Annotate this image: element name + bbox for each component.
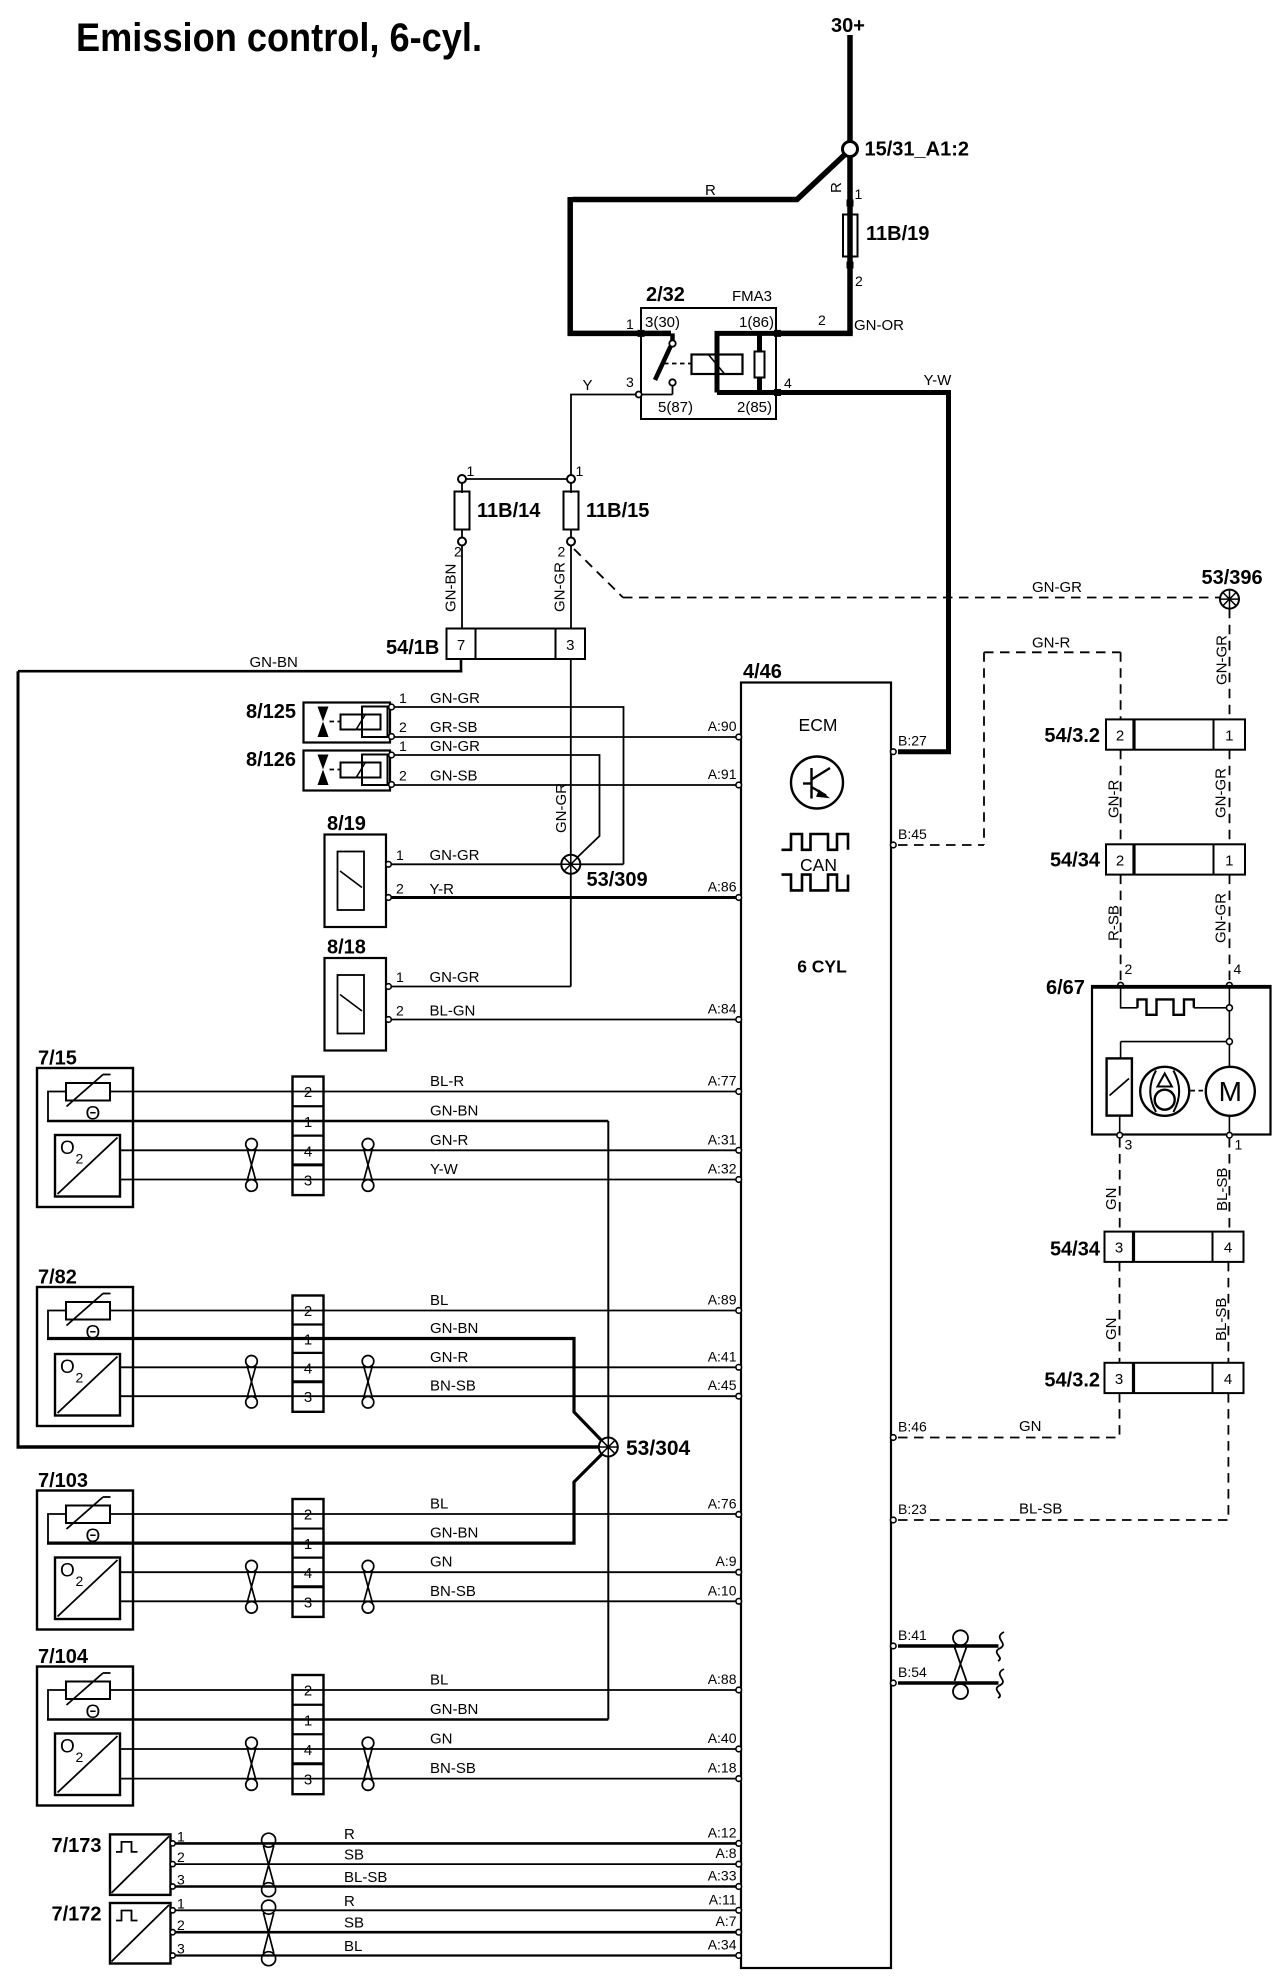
wire BN-SB 7/103 pin 3 to ECM [120,1600,736,1602]
wire Y-W 7/15 pin 3 to ECM [120,1179,736,1181]
dashed wire GN-GR splice to 54/3.2 pin 1 [1229,609,1231,720]
oxygen sensor 7/82 heater element [66,1302,110,1320]
svg-text:GN-R: GN-R [1106,780,1123,818]
svg-text:1: 1 [177,1895,185,1911]
wire into fuse 11B/14 [461,483,463,493]
solenoid valve 8/126 box [304,751,391,791]
svg-text:1: 1 [1235,1137,1243,1153]
svg-text:3: 3 [304,1173,312,1190]
fuse 11B/14 [455,492,470,530]
ECM pin A:45 [736,1393,742,1399]
svg-text:7/15: 7/15 [38,1048,77,1070]
svg-text:5(87): 5(87) [658,399,693,416]
connector of 7/82 [293,1296,324,1412]
svg-text:Emission control, 6-cyl.: Emission control, 6-cyl. [76,16,482,60]
svg-text:ECM: ECM [799,715,838,735]
svg-text:1(86): 1(86) [739,314,774,331]
wire BL 7/82 pin 2 to ECM [110,1310,736,1312]
svg-text:A:88: A:88 [708,1671,737,1687]
svg-text:GN-GR: GN-GR [430,690,480,707]
svg-text:6/67: 6/67 [1046,977,1085,999]
ECM 4/46 box [741,683,891,1969]
svg-text:7/82: 7/82 [38,1267,77,1289]
svg-text:B:54: B:54 [898,1664,927,1680]
solenoid valve 8/126 pin 1 [389,752,395,758]
svg-text:3: 3 [1115,1240,1123,1257]
svg-text:A:8: A:8 [715,1845,736,1861]
wire GN-GR 8/126 pin 1 [395,755,600,862]
svg-text:4: 4 [304,1360,312,1377]
svg-text:BL-R: BL-R [430,1073,464,1090]
fuel pump 6/67 box [1092,986,1271,1135]
svg-text:GN-GR: GN-GR [552,562,569,612]
svg-text:BN-SB: BN-SB [430,1378,476,1395]
svg-text:A:7: A:7 [715,1913,736,1929]
svg-text:2: 2 [1116,727,1124,744]
svg-text:BN-SB: BN-SB [430,1760,476,1777]
svg-text:A:40: A:40 [708,1730,737,1746]
svg-text:O: O [60,1138,75,1159]
svg-text:A:33: A:33 [708,1868,737,1884]
component 8/19 box [325,835,387,928]
svg-text:6 CYL: 6 CYL [797,957,847,977]
svg-text:GN: GN [1103,1188,1120,1211]
wire GN-GR fuse to 54/1B pin 3 [570,546,572,629]
svg-text:BL-SB: BL-SB [1213,1298,1230,1341]
svg-text:2: 2 [396,1003,404,1019]
svg-text:2: 2 [304,1507,312,1524]
svg-text:Y-W: Y-W [430,1161,459,1178]
wire GN-OR relay pin 2 to fuse [776,331,853,337]
wire GN-GR 8/19 pin 1 to splice 53/309 [386,862,392,868]
wire BN-SB 7/104 pin 3 to ECM [120,1778,736,1780]
svg-text:GN-SB: GN-SB [430,768,478,785]
speed sensor 7/172 box [110,1903,171,1964]
svg-text:BL-SB: BL-SB [344,1869,387,1886]
wire 30+ feed [847,35,853,142]
dashed wire GN-R ECM B:45 to 54/3.2 pin 2 [898,844,984,846]
svg-text:A:90: A:90 [708,718,737,734]
svg-text:A:86: A:86 [708,879,737,895]
svg-text:4: 4 [304,1565,312,1582]
wire GN-R 7/82 pin 4 to ECM [120,1366,736,1368]
relay pin 2 junction dot [774,330,781,337]
connector of 7/15 [293,1077,324,1196]
oxygen sensor 7/104 O2 cell [55,1734,120,1796]
wire BN-SB 7/82 pin 3 to ECM [120,1395,736,1397]
wire Y-W relay pin 4 to ECM B:27 [777,393,949,752]
svg-text:Θ: Θ [86,1323,101,1344]
wire GN 7/103 pin 4 to ECM [120,1571,736,1573]
splice 53/309 [561,855,580,874]
solenoid valve 8/126 pin 2 [389,782,395,788]
svg-text:1: 1 [467,463,475,479]
svg-text:7: 7 [457,637,465,654]
svg-text:2: 2 [304,1303,312,1320]
svg-text:2: 2 [454,544,462,560]
fuse 11B/19 [843,215,858,257]
svg-text:O: O [60,1737,75,1758]
oxygen sensor 7/104 heater element [66,1682,110,1700]
relay switch blade [655,347,671,381]
ECM pin A:8 [736,1861,742,1867]
twisted pair marks 7/82 [246,1356,258,1368]
connector of 7/103 [293,1499,324,1617]
ECM pin A:31 [736,1148,742,1154]
node 15/31_A1:2 [843,142,858,157]
svg-text:54/3.2: 54/3.2 [1044,1370,1100,1392]
svg-text:54/34: 54/34 [1050,1239,1101,1261]
svg-text:B:46: B:46 [898,1419,927,1435]
svg-text:GN: GN [430,1554,453,1571]
oxygen sensor 7/82 heater loop wire [48,1311,66,1339]
relay pin 1 junction dot [638,330,645,337]
svg-text:A:91: A:91 [708,766,737,782]
svg-text:M: M [1219,1076,1242,1107]
svg-text:A:9: A:9 [715,1553,736,1569]
wire GN-BN 7/103 pin 1 from splice 53/304 [47,1452,604,1543]
svg-text:GN-GR: GN-GR [430,969,480,986]
svg-text:11B/19: 11B/19 [866,223,929,245]
svg-text:GN-GR: GN-GR [430,738,480,755]
solenoid valve 8/126 coil [341,763,381,778]
svg-text:A:45: A:45 [708,1377,737,1393]
ECM pin B:54 [891,1680,897,1686]
ECM pin A:34 [736,1953,742,1959]
svg-text:O: O [60,1561,75,1582]
speed sensor 7/173 pin 3 wire BL-SB [170,1884,175,1889]
svg-text:54/34: 54/34 [1050,850,1101,872]
svg-text:53/304: 53/304 [626,1437,691,1460]
svg-text:BL-SB: BL-SB [1019,1501,1062,1518]
wire ECM B:54 CAN [898,1681,999,1684]
fuse 11B/14 pin 1 node [458,475,466,483]
svg-text:2: 2 [1125,961,1133,977]
dashed wire GN-GR to splice 53/396 [623,597,1220,599]
svg-text:GN-BN: GN-BN [250,654,298,671]
relay coil circuit wires [715,331,777,336]
oxygen sensor 7/15 box [37,1068,133,1207]
svg-text:4: 4 [304,1143,312,1160]
solenoid valve 8/125 coil [341,715,381,730]
6/67 sender resistor [1107,1058,1132,1115]
ECM pin A:33 [736,1884,742,1890]
svg-text:R: R [705,182,716,199]
wire GN-GR 8/125 pin 1 [395,707,624,864]
svg-text:GN: GN [430,1731,453,1748]
6/67 level sender symbol [1138,999,1194,1014]
svg-text:15/31_A1:2: 15/31_A1:2 [865,139,970,161]
svg-text:3: 3 [304,1772,312,1789]
ECM pin A:32 [736,1177,742,1183]
solenoid valve 8/125 pin 1 [389,704,395,710]
svg-text:A:10: A:10 [708,1582,737,1598]
svg-text:R: R [344,1826,355,1843]
svg-text:2: 2 [304,1683,312,1700]
ECM pin A:40 [736,1746,742,1752]
fuse 11B/15 [570,483,572,493]
wire GN-GR 8/18 pin 1 to splice branch [386,984,392,990]
svg-text:1: 1 [399,738,407,754]
svg-text:SB: SB [344,1915,364,1932]
fuse 11B/14 pin 2 node [458,538,466,546]
solenoid valve 8/125 valve symbol [318,707,329,738]
dashed GN-GR branch from fuse 11B/15 [574,549,623,598]
svg-text:3: 3 [304,1594,312,1611]
component 8/18 element [338,975,365,1034]
wire link splice to 8/125 branch [571,863,624,865]
ECM pin A:88 [736,1687,742,1693]
fuel pump 6/67 pin 4 [1227,982,1233,988]
speed sensor 7/173 pin 1 wire R [170,1841,175,1846]
svg-text:GN-GR: GN-GR [430,847,480,864]
6/67 motor M [1206,1067,1255,1116]
component 8/18 box [325,958,387,1051]
svg-text:1: 1 [304,1114,312,1131]
ECM driver transistor symbol [791,757,843,809]
svg-text:A:11: A:11 [709,1891,737,1907]
ECM pin A:89 [736,1308,742,1314]
svg-text:7/172: 7/172 [52,1904,102,1926]
svg-text:GN-GR: GN-GR [553,783,570,833]
6/67 sender signal wire [1121,988,1138,1008]
svg-text:1: 1 [177,1828,185,1844]
ECM pin A:12 [736,1841,742,1847]
svg-text:BN-SB: BN-SB [430,1583,476,1600]
svg-text:R-SB: R-SB [1106,905,1123,941]
svg-text:GN-BN: GN-BN [430,1525,478,1542]
wire GN-BN 7/82 pin 1 to splice 53/304 [47,1339,604,1443]
ECM pin B:27 [891,749,897,755]
6/67 pump-motor coupling [1191,1090,1205,1092]
svg-text:1: 1 [304,1713,312,1730]
wire GN-SB 8/126 pin 2 to ECM A:91 [395,784,737,786]
svg-text:2: 2 [399,719,407,735]
oxygen sensor 7/103 heater element [66,1506,110,1524]
ECM pin A:18 [736,1776,742,1782]
solenoid valve 8/126 connector housing [362,755,388,786]
svg-text:1: 1 [396,847,404,863]
ECM pin B:45 [891,842,897,848]
solenoid valve 8/126 valve symbol [318,755,329,786]
wire between fuse top nodes [462,478,571,480]
ECM pin B:41 [891,1643,897,1649]
svg-text:3: 3 [626,374,634,390]
svg-text:Y-R: Y-R [430,881,455,898]
speed sensor 7/172 pin 3 wire BL [170,1953,175,1958]
ECM pin A:10 [736,1599,742,1605]
svg-text:1: 1 [855,186,863,202]
svg-text:1: 1 [399,690,407,706]
relay switch pivot [670,333,675,340]
ECM pin B:46 [891,1435,897,1441]
oxygen sensor 7/103 heater loop wire [48,1514,66,1543]
wire R fuse branch [847,155,853,333]
svg-text:3: 3 [566,637,574,654]
wire R from node to relay pin 1 [573,154,846,200]
wire GN-GR 54/1B pin 3 down to 8/18 [570,659,572,987]
svg-text:4: 4 [1234,961,1242,977]
ECM pin A:76 [736,1512,742,1518]
svg-text:GN: GN [1019,1418,1042,1435]
svg-text:2: 2 [76,1370,84,1386]
relay pin 4 junction dot [774,389,781,396]
svg-text:A:89: A:89 [708,1292,737,1308]
svg-text:FMA3: FMA3 [732,288,772,305]
relay coil box [692,355,743,375]
wire GN 7/104 pin 4 to ECM [120,1748,736,1750]
svg-text:8/19: 8/19 [327,813,366,835]
6/67 junction node upper [1226,1005,1232,1011]
solenoid valve 8/126 dashed link [330,769,341,771]
svg-text:7/104: 7/104 [38,1646,89,1668]
component 8/19 element [338,852,365,911]
oxygen sensor 7/82 box [37,1287,133,1426]
oxygen sensor 7/15 heater loop wire [48,1092,66,1122]
ECM pin A:7 [736,1929,742,1935]
svg-text:4: 4 [1224,1371,1232,1388]
ECM pin A:77 [736,1089,742,1095]
svg-text:BL: BL [430,1292,448,1309]
svg-text:2: 2 [76,1151,84,1167]
fuse 11B/19 pin 2 [847,262,854,269]
svg-text:GN-GR: GN-GR [1032,579,1082,596]
dashed wire GN-GR 54/3.2 to 54/34 [1229,750,1231,845]
svg-text:BL: BL [344,1938,362,1955]
solenoid valve 8/125 dashed link [330,721,341,723]
svg-text:4/46: 4/46 [743,661,782,683]
fuse 11B/15 pin 1 node [567,475,575,483]
svg-text:3: 3 [1115,1371,1123,1388]
6/67 sender feed wire [1121,1041,1227,1043]
svg-text:11B/14: 11B/14 [477,500,541,522]
svg-text:R: R [344,1893,355,1910]
oxygen sensor 7/103 O2 cell [55,1558,120,1620]
wire BL-R 7/15 pin 2 to ECM [110,1091,736,1093]
solenoid valve 8/125 box [304,703,391,743]
svg-text:GN-R: GN-R [1032,635,1070,652]
ECM pin A:91 [736,782,742,788]
wire BL 7/103 pin 2 to ECM [110,1513,736,1515]
ECM pin A:84 [736,1017,742,1023]
svg-text:BL-SB: BL-SB [1214,1168,1231,1211]
svg-text:A:18: A:18 [708,1760,737,1776]
dashed wire BL-SB 6/67 pin 1 to 54/34 [1228,1138,1230,1232]
6/67 internal supply wire [1228,988,1230,1067]
oxygen sensor 7/104 box [37,1667,133,1806]
svg-text:A:76: A:76 [708,1495,737,1511]
svg-text:2: 2 [177,1917,185,1933]
svg-text:2: 2 [76,1573,84,1589]
svg-text:GN-BN: GN-BN [443,564,460,612]
svg-text:A:31: A:31 [708,1131,737,1147]
svg-text:8/126: 8/126 [246,749,296,771]
svg-text:2/32: 2/32 [646,284,685,306]
svg-text:8/125: 8/125 [246,701,296,723]
ECM pin A:9 [736,1569,742,1575]
svg-text:A:41: A:41 [708,1348,737,1364]
svg-text:8/18: 8/18 [327,937,366,959]
svg-text:2: 2 [399,768,407,784]
svg-text:3: 3 [1125,1137,1133,1153]
svg-text:R: R [828,182,845,193]
svg-text:7/103: 7/103 [38,1470,88,1492]
svg-text:SB: SB [344,1847,364,1864]
fuel pump 6/67 pin 2 [1118,982,1124,988]
svg-text:GN-GR: GN-GR [1214,635,1231,685]
svg-text:3: 3 [177,1872,185,1888]
svg-text:54/3.2: 54/3.2 [1044,725,1100,747]
dashed wire GN 6/67 pin 3 to 54/34 [1119,1138,1121,1232]
ECM CAN symbol [782,834,849,850]
svg-text:BL-GN: BL-GN [430,1003,476,1020]
ECM pin A:11 [736,1908,742,1914]
speed sensor 7/172 pin 2 wire SB [170,1930,175,1935]
svg-text:GN-BN: GN-BN [430,1701,478,1718]
connector of 7/104 [293,1675,324,1794]
dashed wire BL-SB 54/3.2 to ECM B:23 [1227,1393,1229,1520]
fuel pump 6/67 pin 1 [1227,1132,1233,1138]
svg-text:GN-GR: GN-GR [1213,768,1230,818]
svg-text:1: 1 [1225,852,1233,869]
wire GN-R 7/15 pin 4 to ECM [120,1149,736,1151]
6/67 junction node lower [1226,1039,1232,1045]
oxygen sensor 7/104 heater loop wire [48,1690,66,1720]
svg-text:2: 2 [76,1749,84,1765]
svg-text:A:32: A:32 [708,1161,737,1177]
svg-text:B:23: B:23 [898,1501,927,1517]
oxygen sensor 7/103 box [37,1491,133,1630]
svg-text:2: 2 [818,312,826,328]
wire GN-BN 54/1B pin 7 to splice 53/304 [460,659,463,673]
wire BL 7/104 pin 2 to ECM [110,1689,736,1691]
svg-text:2: 2 [396,881,404,897]
relay 2/32 box [641,308,776,419]
oxygen sensor 7/15 O2 cell [55,1135,120,1197]
svg-text:GN-BN: GN-BN [430,1320,478,1337]
ECM pin A:86 [736,895,742,901]
svg-text:GN-GR: GN-GR [1213,893,1230,943]
wire GN-BN 7/15 pin 1 trunk [47,1120,608,1123]
solenoid valve 8/125 connector housing [362,707,388,738]
dashed wire BL-SB 54/34 to 54/3.2 [1227,1262,1229,1363]
twisted pair mark 7/173 [262,1833,276,1847]
svg-text:53/396: 53/396 [1202,567,1263,589]
twisted pair marks 7/104 [246,1737,258,1749]
wire ECM B:41 CAN [898,1644,999,1647]
twisted pair mark 7/172 [262,1900,276,1914]
svg-text:GN-OR: GN-OR [854,317,904,334]
splice 53/304 [599,1438,618,1457]
svg-text:3: 3 [304,1389,312,1406]
svg-text:A:34: A:34 [708,1937,737,1953]
wire GN-BN fuse to 54/1B pin 7 [461,546,463,629]
splice 53/396 [1220,590,1239,609]
dashed wire GN-GR 54/34 to 6/67 pin 4 [1229,875,1231,982]
svg-text:B:45: B:45 [898,826,927,842]
relay pin 3 terminal [636,392,642,398]
twisted pair marks 7/15 [246,1139,258,1151]
svg-text:30+: 30+ [831,15,865,37]
ECM pin A:41 [736,1365,742,1371]
svg-text:B:41: B:41 [898,1627,927,1643]
svg-text:4: 4 [304,1742,312,1759]
speed sensor 7/173 box [110,1834,171,1895]
wire Y relay pin 3 to fuses [571,395,636,480]
svg-text:2: 2 [177,1849,185,1865]
svg-text:1: 1 [626,316,634,332]
svg-text:1: 1 [576,463,584,479]
